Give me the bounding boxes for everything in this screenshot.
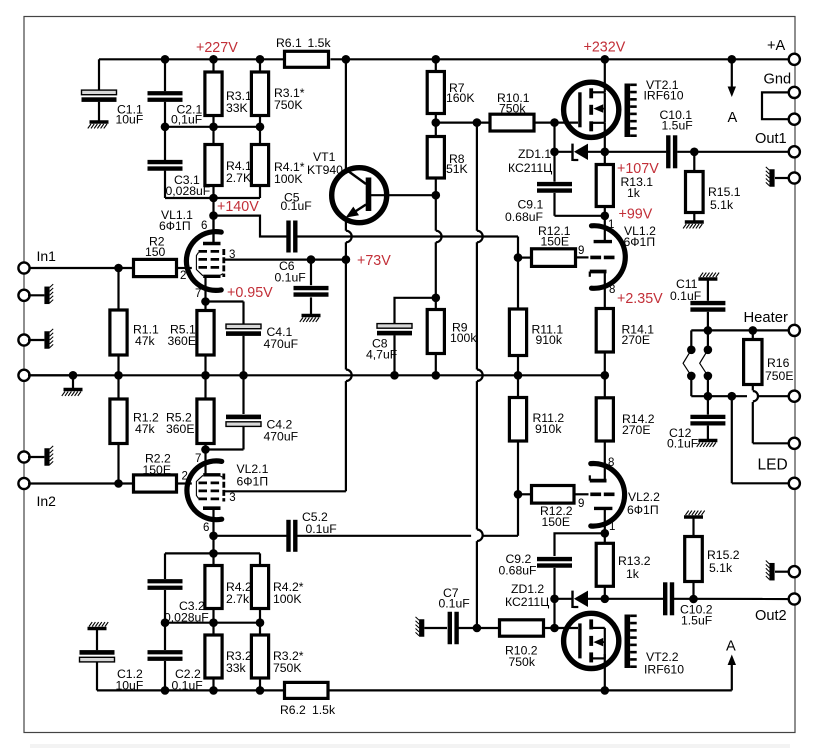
svg-text:0.1uF: 0.1uF [670,289,701,303]
svg-text:IRF610: IRF610 [644,663,684,677]
svg-text:R6.2: R6.2 [280,703,306,717]
svg-text:470uF: 470uF [264,430,299,444]
svg-text:100k: 100k [450,331,477,345]
svg-text:1: 1 [609,521,615,533]
svg-text:In2: In2 [37,493,57,509]
svg-text:5.1k: 5.1k [709,561,733,575]
svg-text:6: 6 [201,220,207,232]
svg-text:750E: 750E [765,369,793,383]
svg-text:6Ф1П: 6Ф1П [237,475,269,489]
svg-text:10uF: 10uF [116,113,144,127]
svg-text:6Ф1П: 6Ф1П [159,219,191,233]
svg-text:In1: In1 [37,248,57,264]
svg-text:750k: 750k [499,102,526,116]
svg-text:0.68uF: 0.68uF [505,210,543,224]
svg-text:6: 6 [203,522,209,534]
svg-text:910k: 910k [536,333,563,347]
svg-text:910k: 910k [535,422,562,436]
svg-text:750K: 750K [273,661,301,675]
svg-text:51K: 51K [446,162,468,176]
svg-text:1: 1 [608,219,614,231]
svg-text:Out1: Out1 [755,131,787,147]
svg-text:+0.95V: +0.95V [227,285,273,301]
svg-text:ZD1.1: ZD1.1 [518,147,551,161]
svg-text:Gnd: Gnd [764,72,792,88]
svg-text:47k: 47k [135,334,156,348]
svg-text:360E: 360E [166,422,194,436]
svg-text:ZD1.2: ZD1.2 [511,582,544,596]
svg-text:0,1uF: 0,1uF [172,679,203,693]
svg-text:0,1uF: 0,1uF [171,113,202,127]
svg-text:9: 9 [578,498,584,510]
svg-text:150E: 150E [541,235,569,249]
svg-text:150: 150 [145,245,166,259]
svg-text:360E: 360E [168,334,196,348]
svg-text:33k: 33k [226,661,247,675]
svg-text:2: 2 [182,471,188,483]
svg-text:0.1uF: 0.1uF [281,199,312,213]
svg-text:IRF610: IRF610 [644,89,684,103]
svg-text:VT1: VT1 [313,150,336,164]
svg-text:470uF: 470uF [264,337,299,351]
svg-text:2.7k: 2.7k [226,592,250,606]
svg-text:9: 9 [578,245,584,257]
svg-text:100K: 100K [274,172,302,186]
svg-text:3: 3 [229,492,235,504]
svg-text:6Ф1П: 6Ф1П [624,235,656,249]
svg-text:0.1uF: 0.1uF [439,597,470,611]
svg-text:+A: +A [767,38,786,54]
svg-text:5.1k: 5.1k [710,198,734,212]
svg-text:2: 2 [180,270,186,282]
svg-text:1k: 1k [626,567,640,581]
svg-text:0.68uF: 0.68uF [499,564,537,578]
svg-text:+2.35V: +2.35V [617,291,663,307]
svg-text:2.7K: 2.7K [226,171,251,185]
svg-text:8: 8 [609,284,615,296]
svg-text:+140V: +140V [217,199,259,215]
svg-text:270E: 270E [622,333,650,347]
svg-text:1.5k: 1.5k [312,703,336,717]
svg-text:160K: 160K [446,91,474,105]
svg-text:Heater: Heater [744,310,788,326]
svg-text:150E: 150E [542,515,570,529]
svg-text:8: 8 [608,457,614,469]
svg-text:47k: 47k [135,422,156,436]
svg-text:1.5uF: 1.5uF [681,614,712,628]
svg-text:150E: 150E [143,463,171,477]
svg-text:+227V: +227V [196,40,238,56]
svg-text:1k: 1k [627,186,641,200]
svg-text:6Ф1П: 6Ф1П [627,503,659,517]
svg-text:R15.2: R15.2 [707,548,740,562]
svg-text:A: A [726,639,736,655]
svg-text:0.1uF: 0.1uF [275,271,306,285]
svg-text:R6.1: R6.1 [276,36,302,50]
svg-text:R13.2: R13.2 [618,554,651,568]
svg-text:+107V: +107V [617,161,659,177]
svg-text:7: 7 [195,453,201,465]
svg-text:1.5uF: 1.5uF [662,119,693,133]
svg-text:+232V: +232V [584,40,626,56]
svg-text:4,7uF: 4,7uF [366,348,397,362]
svg-text:7: 7 [195,288,201,300]
svg-text:Out2: Out2 [755,608,787,624]
svg-text:33K: 33K [226,101,248,115]
svg-text:A: A [728,110,738,126]
svg-text:270E: 270E [622,423,650,437]
svg-text:750k: 750k [509,655,536,669]
svg-text:KT940: KT940 [307,163,343,177]
svg-text:10uF: 10uF [116,679,144,693]
svg-text:R15.1: R15.1 [708,185,741,199]
svg-text:0.1uF: 0.1uF [667,437,698,451]
svg-text:R16: R16 [767,356,790,370]
svg-text:VL2.2: VL2.2 [628,490,660,504]
svg-text:LED: LED [758,457,788,474]
svg-text:1.5k: 1.5k [308,36,332,50]
svg-text:КС211Ц: КС211Ц [505,595,549,609]
svg-text:100K: 100K [273,592,301,606]
svg-text:0.1uF: 0.1uF [306,522,337,536]
svg-text:+73V: +73V [357,253,391,269]
svg-text:+99V: +99V [619,207,653,223]
svg-text:КС211Ц: КС211Ц [508,161,552,175]
svg-text:750K: 750K [274,98,302,112]
